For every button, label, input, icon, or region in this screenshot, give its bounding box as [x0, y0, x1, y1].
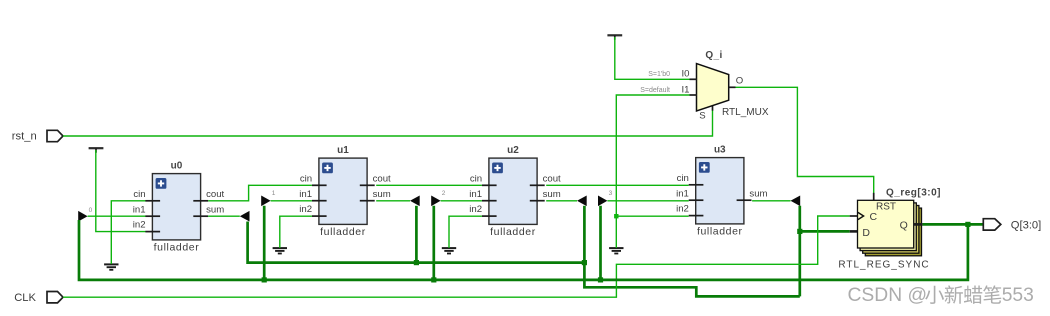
wire u0.sum to m0 — [208, 215, 240, 217]
svg-text:fulladder: fulladder — [154, 242, 200, 254]
svg-text:cin: cin — [677, 173, 689, 184]
svg-text:0: 0 — [89, 207, 93, 214]
wire G3 to u2.in2 — [449, 216, 482, 248]
mux S pin stub — [712, 105, 714, 110]
svg-text:S=default: S=default — [640, 87, 670, 94]
register C pin stub — [850, 215, 858, 217]
fulladder u3 — [676, 144, 767, 237]
Q bus rip3 riser — [599, 206, 602, 280]
svg-text:fulladder: fulladder — [320, 226, 366, 238]
svg-text:rst_n: rst_n — [12, 130, 37, 142]
svg-text:in2: in2 — [676, 204, 689, 215]
svg-text:Q: Q — [900, 219, 908, 231]
wire u3.sum to m3 — [752, 200, 790, 202]
svg-text:S: S — [699, 111, 705, 122]
wire sum bus to register D — [800, 230, 850, 233]
power constant T2 (mux I0) — [607, 35, 622, 40]
svg-text:553: 553 — [1002, 285, 1034, 306]
wire u1.cout to u2.cin — [376, 184, 482, 186]
wire u2.sum to m2 — [546, 200, 577, 202]
power constant T1 (u0.in2 = 1) — [89, 148, 104, 153]
wire mux O to register RST — [736, 87, 874, 193]
watermark CSDN @xiaoxinlabi553 — [848, 285, 1034, 306]
fulladder u2 — [469, 145, 561, 238]
sum bus from m0 down and along rail — [248, 222, 800, 297]
Q bus rip 3 triangle — [598, 196, 607, 207]
svg-text:u2: u2 — [507, 145, 519, 156]
junction dot Q output — [965, 222, 970, 227]
svg-text:in1: in1 — [299, 189, 312, 200]
svg-text:C: C — [870, 211, 878, 223]
svg-text:sum: sum — [543, 189, 561, 200]
wire rip0 to u0.in1 — [88, 215, 146, 217]
register D pin stub — [850, 230, 858, 233]
ground G3 (u2.in2) — [442, 248, 456, 253]
sum merge triangle m2 — [577, 196, 587, 207]
fulladder u1 — [299, 145, 391, 238]
Q bus rip 2 triangle — [431, 196, 440, 207]
wire G1 to u0.cin — [111, 201, 145, 264]
svg-text:3: 3 — [609, 190, 613, 197]
svg-text:fulladder: fulladder — [490, 226, 536, 238]
wire G2 to u1.in2 — [280, 216, 312, 248]
fulladder u0 — [133, 160, 225, 253]
svg-text:I1: I1 — [681, 84, 689, 95]
junction dot sum rail at m2 — [582, 260, 587, 265]
svg-text:cout: cout — [206, 189, 224, 200]
Q bus rip 1 triangle — [261, 196, 270, 207]
register Q output stub — [914, 223, 923, 226]
Q bus rip1 riser — [263, 206, 266, 280]
svg-text:CSDN @: CSDN @ — [848, 285, 928, 306]
ground G2 (u1.in2) — [273, 248, 287, 253]
svg-text:cout: cout — [373, 173, 391, 184]
Q bus loop back — [79, 220, 968, 280]
svg-text:I0: I0 — [681, 69, 689, 80]
svg-text:in2: in2 — [469, 204, 482, 215]
svg-text:cin: cin — [470, 173, 482, 184]
svg-text:sum: sum — [749, 188, 767, 199]
junction dot rip1 — [262, 277, 267, 282]
svg-text:RTL_MUX: RTL_MUX — [722, 107, 769, 118]
sum bus riser to D — [798, 206, 801, 297]
wire rip3 to u3.in1 — [607, 200, 688, 202]
svg-text:S=1'b0: S=1'b0 — [648, 71, 670, 78]
wire u0.cout to u1.cin — [208, 185, 312, 201]
wire rip1 to u1.in1 — [271, 200, 312, 202]
svg-text:Q_i: Q_i — [705, 50, 722, 61]
wire branch to u3.in2 — [616, 215, 688, 217]
junction dot sum rail at m1 — [414, 260, 419, 265]
wire CLK to register C — [63, 216, 850, 297]
svg-text:cout: cout — [543, 173, 561, 184]
svg-text:u0: u0 — [171, 160, 183, 171]
junction dot u3.in2 tap — [614, 214, 618, 218]
svg-text:in1: in1 — [469, 189, 482, 200]
mux Q_i RTL_MUX — [681, 50, 768, 122]
svg-text:u1: u1 — [337, 145, 349, 156]
sum merge triangle m1 — [410, 196, 420, 207]
wire rip2 to u2.in1 — [441, 200, 482, 202]
sum merge triangle m0 — [240, 211, 250, 222]
wire rst_n to mux S — [63, 110, 713, 136]
svg-text:RST: RST — [876, 202, 896, 213]
register Q_reg RTL_REG_SYNC — [838, 187, 941, 270]
wire T2 to mux I0 — [615, 37, 690, 79]
wire G4 up to mux I1 — [616, 95, 689, 248]
svg-text:sum: sum — [206, 204, 224, 215]
svg-text:fulladder: fulladder — [697, 226, 743, 238]
junction dot sum bus D branch — [797, 229, 802, 234]
svg-text:Q_reg[3:0]: Q_reg[3:0] — [886, 187, 941, 198]
register RST pin stub — [873, 193, 875, 201]
sum bus m1 drop — [415, 206, 418, 263]
svg-text:in1: in1 — [676, 188, 689, 199]
svg-text:in2: in2 — [133, 220, 146, 231]
junction dot rip3 — [598, 277, 603, 282]
svg-text:O: O — [736, 76, 743, 87]
svg-text:RTL_REG_SYNC: RTL_REG_SYNC — [838, 260, 929, 271]
ground G4 (u3.in2 and mux I1) — [609, 248, 623, 253]
svg-text:cin: cin — [300, 173, 312, 184]
input port rst_n — [12, 130, 63, 142]
sum merge triangle m3 — [791, 196, 801, 207]
Q bus rip 0 triangle — [78, 211, 87, 222]
svg-text:in2: in2 — [299, 204, 312, 215]
Q output bus to port — [923, 223, 984, 226]
Q bus rip2 riser — [432, 206, 435, 280]
input port CLK — [14, 292, 63, 304]
svg-text:CLK: CLK — [14, 292, 36, 304]
wire T1 to u0.in2 — [96, 150, 146, 232]
svg-text:sum: sum — [373, 189, 391, 200]
wire u2.cout to u3.cin — [546, 184, 689, 186]
svg-text:D: D — [862, 227, 870, 239]
svg-text:cin: cin — [133, 189, 145, 200]
output port Q[3:0] — [983, 219, 1041, 232]
svg-text:Q[3:0]: Q[3:0] — [1011, 219, 1041, 231]
ground G1 (u0.cin) — [104, 264, 118, 269]
svg-text:1: 1 — [272, 190, 276, 197]
sum bus m2 drop — [583, 206, 586, 263]
junction dot rip2 — [431, 277, 436, 282]
svg-text:2: 2 — [442, 190, 446, 197]
svg-text:in1: in1 — [133, 204, 146, 215]
wire u1.sum to m1 — [376, 200, 410, 202]
svg-text:u3: u3 — [714, 144, 726, 155]
